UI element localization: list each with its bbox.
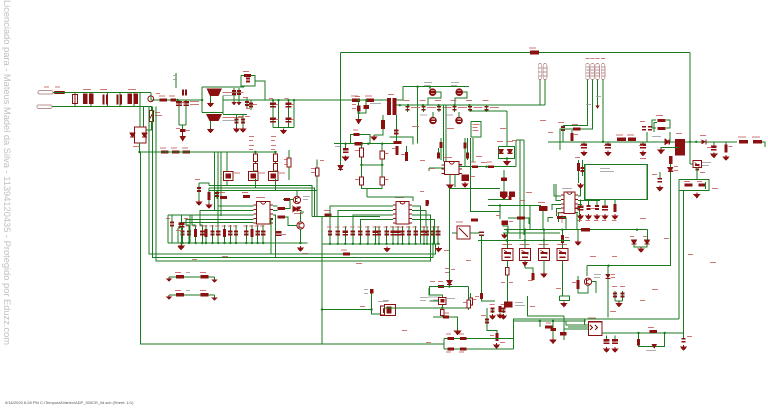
label — [271, 145, 276, 146]
capacitor C28 — [336, 232, 340, 235]
label — [176, 128, 180, 129]
wire — [559, 296, 569, 301]
label — [612, 220, 617, 221]
wire — [360, 219, 393, 226]
label — [351, 96, 358, 97]
capacitor C39 — [407, 232, 411, 235]
junction — [254, 151, 256, 153]
wire — [344, 226, 346, 244]
label — [182, 148, 188, 149]
label — [446, 352, 451, 353]
wire — [257, 225, 259, 243]
junction — [485, 166, 487, 168]
junction — [689, 141, 691, 143]
label — [458, 107, 467, 108]
capacitor C45 — [343, 148, 349, 152]
label — [433, 300, 440, 301]
svg-text:Licenciado para - Mateus Madel: Licenciado para - Mateus Madel da Silva … — [2, 0, 12, 345]
label — [215, 226, 220, 227]
label — [428, 297, 440, 298]
wire U2 top bus — [312, 216, 380, 218]
wire opto top bus — [504, 229, 648, 231]
wire — [271, 219, 273, 254]
resistor R43 — [437, 152, 440, 158]
wire — [548, 218, 553, 223]
label — [620, 286, 625, 287]
label — [507, 141, 513, 142]
ground — [371, 135, 377, 140]
resistor loop — [652, 120, 670, 128]
connector pin P2 — [591, 64, 595, 80]
wire — [437, 226, 439, 244]
label — [702, 162, 711, 163]
wire — [596, 199, 598, 205]
supply arrow down — [355, 119, 362, 125]
junction — [360, 164, 362, 166]
capacitor C38 — [400, 232, 404, 235]
capacitor C17 — [187, 232, 191, 235]
wire — [515, 140, 517, 167]
wire long right vertical B — [683, 190, 685, 333]
resistor R12 — [208, 192, 211, 200]
wire — [588, 199, 590, 205]
label — [400, 227, 405, 228]
wire — [386, 226, 388, 244]
wire — [441, 308, 443, 317]
label — [710, 262, 716, 263]
resistor R7 — [244, 74, 251, 77]
junction — [432, 243, 434, 245]
junction — [636, 229, 638, 231]
label — [612, 341, 616, 342]
wire — [255, 81, 265, 83]
label — [335, 146, 340, 147]
diode D4 — [338, 166, 343, 170]
label — [420, 115, 427, 116]
label — [420, 191, 424, 192]
resistor R1 — [160, 98, 167, 101]
label — [639, 145, 643, 146]
label — [590, 256, 596, 257]
ground — [208, 102, 214, 107]
wire — [178, 223, 254, 229]
ground — [658, 148, 664, 153]
capacitor C aux — [363, 105, 369, 109]
label — [227, 226, 232, 227]
wire — [365, 100, 367, 105]
label — [676, 133, 682, 134]
junction — [229, 242, 231, 244]
label — [195, 179, 200, 180]
label — [500, 342, 505, 343]
label — [324, 210, 330, 211]
ground — [178, 245, 184, 250]
label — [83, 89, 91, 90]
label — [223, 117, 244, 118]
resistor R25 — [426, 200, 429, 206]
label — [435, 227, 440, 228]
capacitor C34 — [377, 232, 381, 235]
ground — [281, 129, 287, 134]
wire — [578, 186, 581, 196]
label — [223, 120, 237, 121]
wire — [358, 112, 360, 120]
junction — [385, 243, 387, 245]
capacitor C26 — [276, 231, 282, 235]
label — [538, 202, 545, 203]
label — [578, 220, 583, 221]
opto-coupler U11 — [439, 297, 447, 304]
resistor R17 — [205, 229, 208, 237]
wire sense row — [169, 294, 215, 296]
label — [193, 226, 198, 227]
wire — [571, 141, 573, 143]
wire — [202, 86, 244, 88]
wire — [415, 226, 417, 244]
wire — [440, 138, 442, 160]
ground — [211, 297, 217, 301]
wire — [561, 261, 563, 297]
resistor R29 — [359, 177, 363, 185]
wire — [543, 261, 545, 273]
label — [600, 168, 610, 169]
capacitor C11 — [270, 118, 276, 122]
ground — [550, 338, 556, 343]
label — [470, 176, 475, 177]
label — [586, 104, 591, 105]
resistor R75 — [545, 326, 553, 329]
wire — [330, 206, 393, 226]
label — [192, 259, 197, 260]
capacitor C55 — [500, 192, 508, 197]
ground — [694, 193, 700, 198]
junction — [543, 229, 545, 231]
junction — [637, 332, 639, 334]
wire — [254, 170, 256, 173]
wire — [583, 142, 585, 144]
wire — [250, 100, 252, 110]
resistor R55 — [658, 127, 666, 130]
ground — [604, 347, 610, 352]
label — [509, 221, 513, 222]
junction — [401, 243, 403, 245]
wire — [472, 138, 474, 162]
wire — [578, 209, 580, 223]
label — [520, 244, 525, 245]
diode D5 — [498, 149, 503, 153]
capacitor C21 — [228, 232, 232, 235]
capacitor C52 — [484, 107, 488, 110]
ground — [298, 246, 304, 251]
label — [702, 165, 709, 166]
wire — [622, 291, 624, 301]
label — [604, 341, 608, 342]
junction — [381, 143, 383, 145]
wire row upper — [444, 338, 514, 340]
wire — [361, 144, 366, 197]
wire — [359, 226, 361, 244]
label — [385, 153, 389, 154]
label — [712, 188, 718, 189]
wire — [382, 115, 384, 120]
label — [420, 160, 425, 161]
wire — [642, 142, 644, 144]
capacitor C56 — [509, 192, 515, 197]
ground — [581, 151, 587, 156]
wire — [654, 123, 657, 132]
capacitor C36 — [390, 231, 396, 235]
junction — [293, 99, 295, 101]
wire — [557, 209, 562, 217]
wire — [563, 80, 588, 126]
wire — [224, 225, 226, 243]
label — [166, 218, 170, 219]
shunt regulator U8 — [520, 248, 531, 260]
junction — [561, 239, 563, 241]
resistor R69 — [495, 333, 498, 341]
capacitor C65 — [580, 168, 584, 171]
connector pin P4 — [601, 64, 605, 80]
label — [184, 218, 188, 219]
wire — [559, 213, 562, 222]
wire — [470, 110, 507, 112]
wire — [216, 191, 218, 200]
label — [186, 272, 190, 273]
wire L net jog — [151, 93, 202, 101]
junction — [505, 239, 507, 241]
capacitor C12 — [286, 103, 292, 107]
diode D8 — [701, 139, 706, 144]
label — [729, 146, 733, 147]
wire — [578, 160, 580, 183]
wire dual diode loop — [499, 146, 515, 158]
wire — [208, 188, 210, 203]
wire — [430, 188, 450, 295]
ground — [497, 313, 503, 318]
wire — [74, 93, 76, 107]
capacitor C49 — [437, 107, 441, 110]
wire — [452, 232, 457, 234]
junction — [695, 141, 697, 143]
junction — [378, 243, 380, 245]
resistor R60 — [561, 235, 564, 243]
label — [411, 107, 420, 108]
junction — [287, 99, 289, 101]
label — [234, 173, 240, 174]
label — [219, 192, 225, 193]
wire — [340, 53, 342, 172]
junction — [262, 242, 264, 244]
ground — [723, 155, 729, 160]
capacitor C46 — [394, 131, 398, 134]
wire — [455, 92, 467, 105]
wire — [167, 215, 169, 243]
connector J2 neutral prong — [37, 105, 52, 109]
wire — [214, 152, 216, 210]
wire — [516, 139, 524, 141]
ground — [640, 151, 646, 156]
wire — [264, 83, 266, 100]
wire — [353, 215, 393, 226]
label — [546, 323, 551, 324]
junction — [256, 242, 258, 244]
label — [575, 157, 580, 158]
label — [169, 96, 175, 97]
label — [656, 115, 663, 116]
resistor R76 — [650, 330, 658, 333]
label — [426, 342, 431, 343]
label — [520, 200, 525, 201]
resistor R36 — [395, 146, 398, 155]
wire snubber loop — [241, 76, 255, 87]
wire — [285, 217, 297, 226]
resistor R44 — [464, 143, 467, 149]
label — [481, 162, 487, 163]
ground — [501, 194, 507, 199]
wire N net — [52, 106, 148, 108]
label — [565, 237, 569, 238]
wire — [205, 225, 207, 243]
wire row lower — [444, 348, 514, 350]
capacitor C4 — [237, 91, 241, 94]
junction — [506, 157, 508, 159]
label — [594, 220, 599, 221]
junction — [274, 151, 276, 153]
wire — [467, 138, 469, 160]
label — [738, 137, 746, 138]
label — [627, 135, 634, 136]
label — [594, 277, 600, 278]
capacitor C63 — [648, 127, 652, 130]
wire — [233, 88, 235, 102]
wire — [606, 336, 608, 340]
label — [451, 269, 455, 270]
label — [594, 274, 601, 275]
label — [186, 290, 190, 291]
wire — [338, 210, 393, 226]
label — [156, 93, 160, 94]
wire — [470, 293, 472, 308]
capacitor C5 — [245, 102, 249, 105]
label — [352, 104, 356, 105]
label — [222, 226, 227, 227]
label — [335, 227, 340, 228]
wire — [301, 212, 305, 222]
diode D15 — [652, 344, 658, 349]
ground — [455, 329, 461, 334]
label — [640, 121, 645, 122]
wire — [525, 218, 529, 224]
wire — [556, 184, 561, 200]
capacitor C35 — [384, 232, 388, 235]
label — [652, 289, 658, 290]
capacitor C77 — [551, 328, 557, 331]
label — [401, 154, 405, 155]
wire HV rail — [223, 99, 387, 101]
diode D fb — [297, 207, 302, 211]
resistor R27 — [355, 142, 363, 145]
junction — [448, 285, 450, 287]
wire — [513, 339, 515, 350]
resistor R41 — [488, 165, 494, 168]
wire — [469, 105, 471, 112]
junction — [321, 308, 323, 310]
wire — [147, 122, 152, 131]
ground — [494, 343, 500, 348]
resistor R64 — [557, 216, 566, 219]
wire — [367, 197, 413, 201]
ground — [681, 345, 687, 350]
junction — [201, 242, 203, 244]
label — [275, 119, 279, 120]
label — [463, 302, 467, 303]
wire — [236, 114, 238, 127]
label — [246, 108, 250, 109]
resistor R4 — [172, 150, 180, 153]
wire — [438, 148, 440, 152]
wire — [214, 277, 216, 280]
resistor R series B — [628, 138, 636, 141]
wire — [468, 287, 470, 311]
transformer T2 secondary lead — [210, 121, 212, 128]
capacitor C25 — [261, 232, 265, 235]
resistor R9 — [253, 164, 257, 172]
resistor R61 — [506, 268, 510, 276]
transistor Q3 — [269, 172, 279, 181]
label — [175, 290, 181, 291]
capacitor C14 — [197, 188, 201, 191]
label — [601, 58, 605, 59]
label — [515, 305, 525, 306]
wire — [503, 181, 505, 194]
label — [271, 149, 275, 150]
varistor RV1 — [73, 95, 78, 104]
ground — [343, 155, 349, 160]
wire — [218, 206, 253, 225]
wire — [482, 239, 496, 301]
ground — [447, 183, 453, 188]
wire — [647, 230, 649, 240]
label — [438, 281, 443, 282]
capacitor C6 — [246, 79, 250, 82]
junction — [195, 242, 197, 244]
choke L2 winding A — [128, 94, 133, 104]
junction — [245, 242, 247, 244]
wire — [454, 175, 456, 188]
resistor R series A — [617, 138, 626, 141]
label — [249, 145, 254, 146]
wire — [470, 138, 472, 197]
wire — [506, 158, 508, 160]
wire — [274, 170, 276, 173]
wire — [562, 130, 564, 142]
wire — [634, 244, 647, 247]
capacitor C71 — [613, 294, 617, 297]
label — [342, 227, 347, 228]
junction — [223, 242, 225, 244]
wire — [395, 115, 397, 144]
resistor R33 — [366, 99, 374, 102]
wire — [552, 204, 561, 210]
wire — [614, 291, 616, 301]
wire — [222, 96, 224, 114]
wire — [554, 184, 561, 196]
label — [200, 272, 206, 273]
wire — [352, 226, 354, 244]
wire — [423, 226, 425, 244]
junction — [426, 243, 428, 245]
junction — [344, 143, 346, 145]
